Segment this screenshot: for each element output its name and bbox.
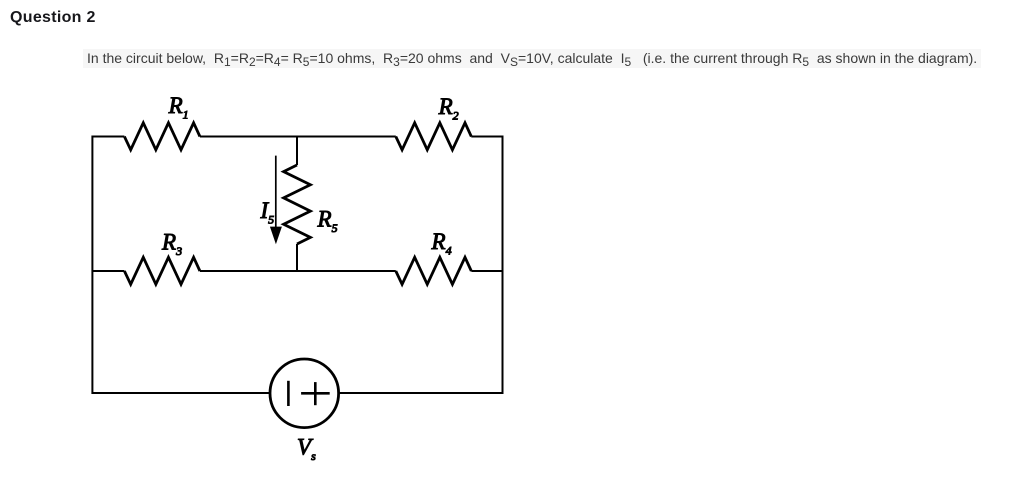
wire bottom-left segment — [92, 392, 270, 394]
svg-text:R1: R1 — [168, 93, 189, 122]
wire middle-center segment — [200, 270, 396, 272]
wire top-right segment — [471, 136, 502, 138]
resistor R5 — [284, 165, 311, 244]
resistor R2 — [396, 123, 472, 150]
resistor R3 — [124, 257, 199, 284]
wire left vertical — [91, 136, 93, 395]
current arrow I5 — [270, 156, 282, 245]
voltage source Vs circle — [270, 359, 339, 428]
wire middle-right segment — [471, 270, 502, 272]
question text — [83, 49, 981, 68]
svg-text:R4: R4 — [431, 229, 452, 258]
svg-text:R2: R2 — [438, 94, 459, 123]
voltage source plus sign — [301, 382, 330, 405]
title — [10, 8, 96, 27]
wire center vertical upper — [296, 137, 298, 166]
resistor R1 — [124, 123, 199, 150]
voltage source negative plate bar — [287, 381, 290, 406]
wire right vertical — [502, 136, 504, 395]
svg-text:Vs: Vs — [297, 434, 316, 463]
wire center vertical lower — [296, 244, 298, 272]
wire top-middle segment — [200, 136, 396, 138]
wire top-left segment — [92, 136, 124, 138]
wire middle-left segment — [92, 270, 124, 272]
resistor R4 — [396, 257, 472, 284]
svg-text:I5: I5 — [260, 198, 275, 227]
svg-text:R3: R3 — [161, 229, 182, 258]
wire bottom-right segment — [339, 392, 503, 394]
svg-text:R5: R5 — [317, 207, 338, 236]
